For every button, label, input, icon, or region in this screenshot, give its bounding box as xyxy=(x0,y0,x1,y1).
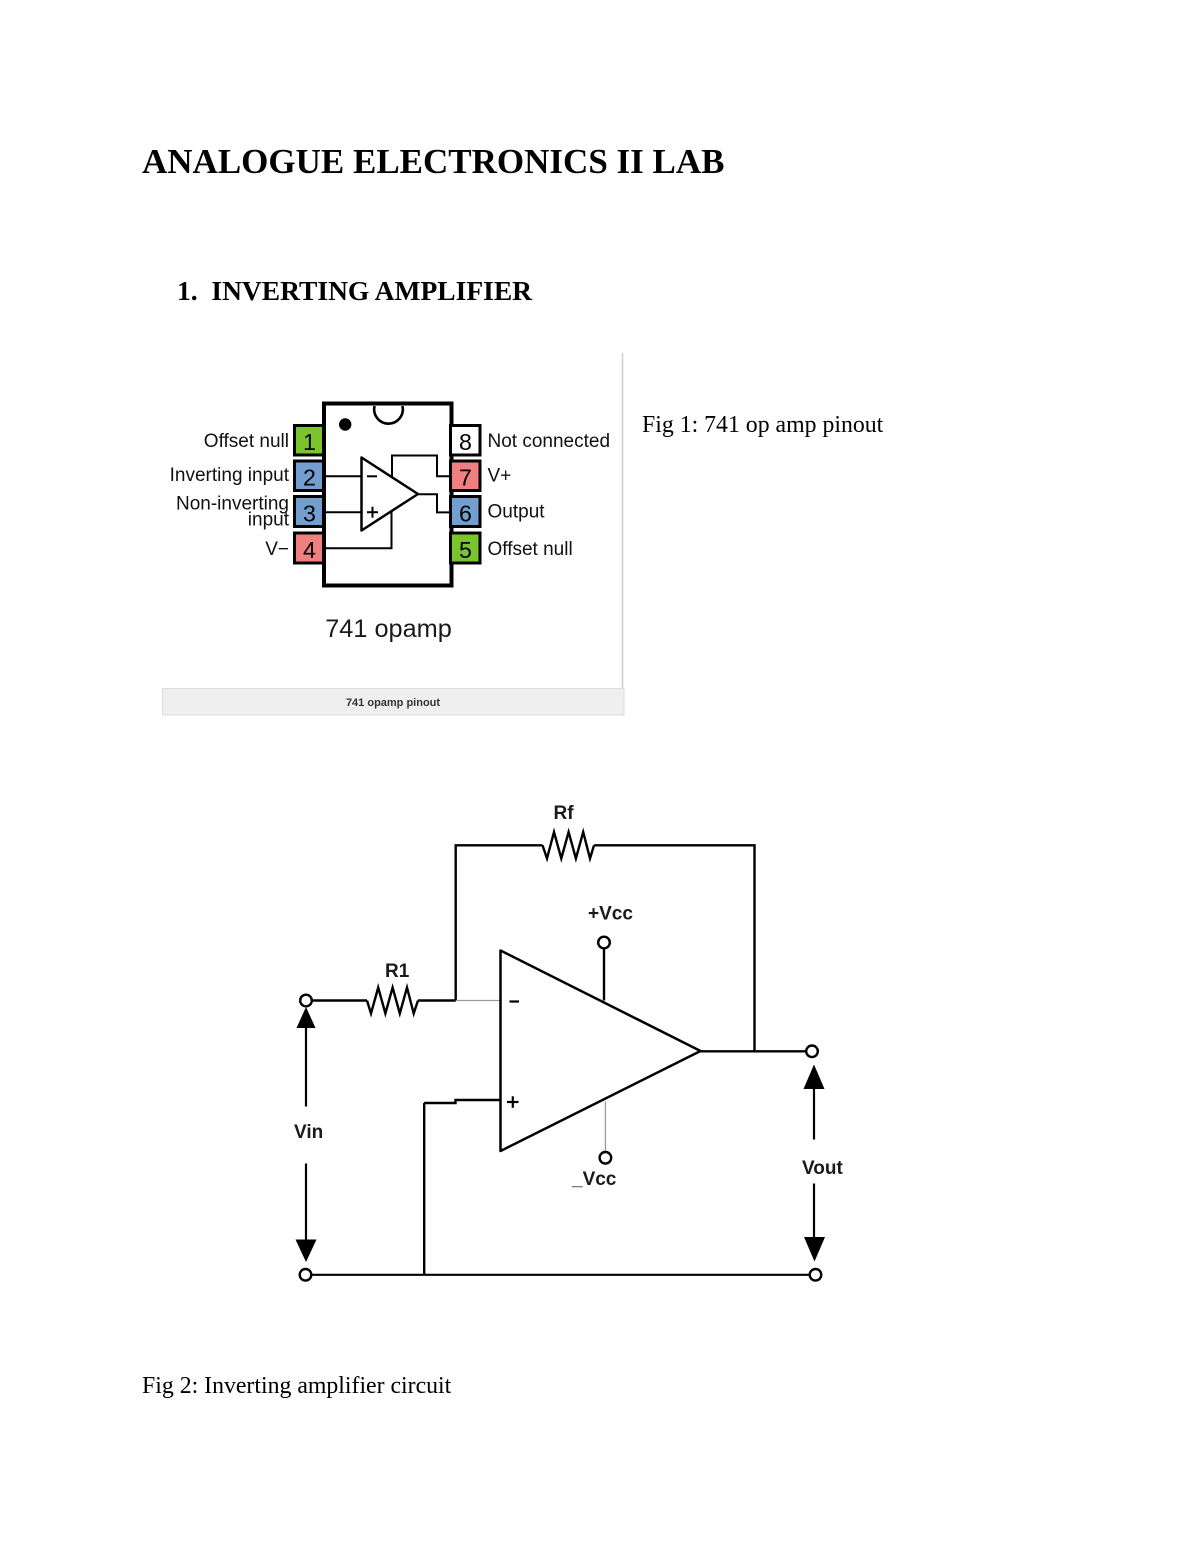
svg-text:Vout: Vout xyxy=(802,1158,843,1179)
svg-text:Not connected: Not connected xyxy=(488,431,611,452)
svg-text:Rf: Rf xyxy=(554,803,575,824)
svg-text:2: 2 xyxy=(303,465,316,491)
svg-text:4: 4 xyxy=(303,537,316,563)
svg-text:1: 1 xyxy=(303,429,316,455)
svg-text:+Vcc: +Vcc xyxy=(588,904,633,925)
svg-text:Output: Output xyxy=(488,502,546,523)
svg-text:5: 5 xyxy=(459,537,472,563)
svg-text:Offset null: Offset null xyxy=(204,431,289,452)
svg-text:V−: V− xyxy=(265,539,289,560)
svg-text:input: input xyxy=(248,510,290,531)
svg-text:6: 6 xyxy=(459,501,472,527)
svg-text:Inverting input: Inverting input xyxy=(170,465,290,486)
svg-text:7: 7 xyxy=(459,465,472,491)
svg-text:741 opamp: 741 opamp xyxy=(325,615,452,643)
svg-text:3: 3 xyxy=(303,501,316,527)
svg-text:8: 8 xyxy=(459,429,472,455)
svg-text:_Vcc: _Vcc xyxy=(571,1169,617,1190)
svg-text:741 opamp pinout: 741 opamp pinout xyxy=(346,697,440,709)
svg-text:V+: V+ xyxy=(488,466,512,487)
svg-text:Vin: Vin xyxy=(294,1122,323,1143)
svg-text:Offset null: Offset null xyxy=(488,539,573,560)
svg-text:R1: R1 xyxy=(385,961,410,982)
